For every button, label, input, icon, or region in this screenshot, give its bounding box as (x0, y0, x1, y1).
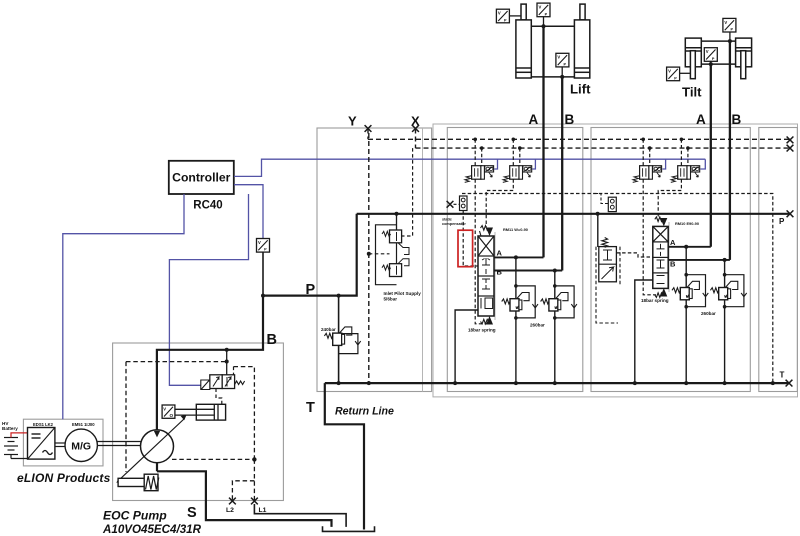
tank symbol (323, 526, 375, 531)
node T Y-line return (367, 381, 371, 385)
wire S suction line to tank (157, 463, 332, 527)
pilot dashed outputs to main spool (475, 179, 488, 324)
pilot dashed compensator channel (463, 211, 478, 267)
controller box RC40 (169, 161, 234, 194)
wire tilt relief B return to T (724, 307, 726, 383)
svg-text:260bar: 260bar (701, 311, 716, 316)
node X bus tap tilt 2 (686, 146, 690, 150)
svg-text:EOC Pump: EOC Pump (103, 509, 167, 523)
svg-text:V: V (163, 406, 166, 411)
plug X at P rail right end (787, 210, 794, 217)
swivel angle sensor (162, 405, 175, 418)
pilot dashed Y bus to pilot valve 2 (513, 139, 520, 165)
svg-text:T: T (780, 371, 785, 380)
pump control valve solenoid (201, 380, 210, 390)
svg-text:Inlet Pilot Supply: Inlet Pilot Supply (384, 291, 422, 296)
wire tilt valve tank port to T (635, 280, 653, 383)
eLION enclosure box (23, 419, 103, 466)
node Y line pilot tap (367, 252, 371, 256)
svg-text:T: T (306, 400, 315, 416)
pilot Y line down to T (368, 133, 370, 383)
svg-text:B: B (565, 112, 575, 127)
tilt pilot reducing valve 1 (633, 166, 662, 183)
node tilt B relief tap (723, 258, 727, 262)
svg-text:L2: L2 (226, 507, 234, 514)
pilot drain gallery dashed (462, 194, 773, 384)
pilot dashed Y tap to reducer (369, 253, 390, 255)
wire lift valve tank port to T (455, 310, 478, 383)
svg-text:EDS1 LK2: EDS1 LK2 (33, 422, 54, 427)
svg-text:RC40: RC40 (193, 200, 222, 212)
tilt section enclosure box (591, 128, 750, 392)
svg-text:RM11 W=0-90: RM11 W=0-90 (503, 227, 528, 232)
node T lift relief A return (514, 381, 518, 385)
wire sensor to cylinder 1 (509, 15, 521, 17)
node Y bus tap lift 1 (473, 138, 477, 142)
pilot dashed control valve to drain (234, 367, 255, 460)
pilot X line down to reducer (402, 148, 413, 236)
svg-text:EM51 1IJ00: EM51 1IJ00 (72, 422, 95, 427)
lift section enclosure box (447, 128, 583, 392)
svg-text:M/G: M/G (71, 441, 91, 453)
P pressure sensor on pump line (257, 239, 270, 253)
wire B tap to control valve (226, 350, 228, 375)
svg-text:18bar spring: 18bar spring (641, 298, 669, 303)
wire B line pump to P junction (157, 296, 263, 430)
wire sensor to P line (262, 252, 264, 296)
node dashed boundary tap (225, 360, 229, 364)
plug X at Y bus end (787, 137, 794, 144)
lift cylinder 1 (516, 4, 531, 78)
wire lift B line down (561, 77, 563, 271)
svg-text:18bar spring: 18bar spring (468, 328, 496, 333)
wire tilt B line down (729, 41, 731, 260)
tilt port relief valve B 260bar (710, 273, 746, 309)
svg-text:260bar: 260bar (530, 323, 545, 328)
pilot Y bus dashed (368, 129, 790, 140)
svg-text:A: A (670, 238, 676, 247)
node tilt A junction (709, 62, 713, 66)
svg-text:Controller: Controller (172, 171, 230, 185)
svg-text:Lift: Lift (570, 82, 591, 97)
tilt main spool valve RM10 (653, 217, 668, 297)
svg-text:B: B (497, 268, 503, 277)
wire controller to eLION M/G (63, 194, 184, 419)
wire controller to solenoid bus (top) (234, 159, 705, 176)
bias piston with spring (118, 478, 144, 486)
end-plate section enclosure box (759, 128, 798, 392)
wire tilt A tap down to relief (685, 247, 687, 275)
motor generator M/G EM51 (65, 429, 97, 461)
wire sensor to rod (680, 72, 691, 74)
node P rail tilt lock valve tap (596, 212, 600, 216)
red highlight box static compensator (458, 230, 473, 267)
sensor lift A line (537, 3, 550, 17)
pump circle A10VO45 (141, 430, 174, 463)
wire lift relief A return to T (515, 318, 517, 383)
plug X at T rail right end (786, 380, 793, 387)
wire controller to P pressure sensor (234, 185, 263, 239)
node T 240bar relief return (337, 381, 341, 385)
wire P rail down to inlet pilot supply (396, 214, 398, 230)
red battery wire (11, 433, 28, 438)
svg-text:RM10 E90-90: RM10 E90-90 (675, 221, 699, 226)
svg-text:O: O (170, 413, 174, 418)
wire lift valve B to cylinder line (494, 270, 562, 272)
svg-text:A: A (529, 112, 539, 127)
pilot dashed Y bus to pilot valve 1 (475, 139, 482, 165)
svg-text:L1: L1 (259, 507, 267, 514)
node X bus tap lift 2 (518, 146, 522, 150)
wire sensor to tilt A junction (710, 61, 712, 64)
wire P line horizontal to inlet section (263, 214, 357, 296)
pump dashed boundary (126, 362, 254, 472)
node B tap to pump control valve (225, 348, 229, 352)
node Y bus tap tilt 1 (641, 138, 645, 142)
pilot dashed branch to L2 (232, 481, 254, 501)
wire T rail to tank (325, 383, 364, 529)
wire tilt B tap down to relief (724, 260, 726, 275)
pilot dashed box around lock valve (596, 247, 620, 323)
lift port relief valve B 260bar (541, 284, 577, 320)
sensor lift rod side (496, 9, 509, 23)
inlet pilot supply reducer 2 (382, 259, 409, 277)
wire P tap to lock valve (597, 214, 599, 247)
wire P rail (357, 213, 790, 215)
plug X at Y port (365, 125, 372, 132)
wire tilt relief A return to T (685, 307, 687, 383)
node X bus tap tilt 1 (648, 146, 652, 150)
pump control 3-way valve (210, 375, 222, 389)
inlet pilot supply reducer 1 (382, 230, 409, 255)
wire drop to lift pilot solenoid 2 (532, 159, 535, 169)
240bar relief valve (324, 296, 360, 384)
wire reducer1 to reducer2 (396, 243, 398, 264)
tilt port relief valve A 260bar (672, 273, 708, 309)
svg-text:B: B (732, 112, 742, 127)
pump variable displacement arrow (118, 419, 185, 482)
svg-text:static: static (442, 218, 452, 222)
svg-text:240bar: 240bar (321, 327, 336, 332)
wire lift B header (531, 76, 574, 78)
svg-text:Tilt: Tilt (682, 85, 702, 100)
wire drop to tilt pilot solenoid 1 (662, 159, 665, 169)
plug X at X bus end (787, 145, 794, 152)
pilot dashed outputs to tilt spool (643, 179, 656, 295)
node T pilot drain return (771, 381, 775, 385)
svg-text:B: B (670, 260, 676, 269)
pump enclosure box (113, 343, 284, 501)
node T tilt valve return (633, 381, 637, 385)
plug X at L1 (251, 498, 258, 505)
wire tilt valve B to cylinder line (668, 259, 730, 261)
wire tilt A line down (710, 64, 712, 247)
svg-text:compensator: compensator (442, 222, 466, 226)
sensor tilt B top (723, 18, 736, 32)
lift pilot reducing valve 2 (503, 166, 532, 183)
pilot dashed lock valve to spool (616, 253, 652, 257)
svg-text:A: A (696, 112, 706, 127)
outer valve-assembly enclosure box (433, 124, 798, 397)
shaft motor to pump (97, 441, 140, 443)
node P rail to inlet pilot supply (395, 212, 399, 216)
tilt load shuttle valve (608, 197, 616, 211)
wire lift valve A to cylinder line (494, 256, 544, 258)
wire tilt valve A to cylinder line (668, 246, 711, 248)
svg-text:P: P (779, 217, 785, 226)
pilot dash to tilt shuttle (595, 194, 608, 204)
node T tilt relief B return (723, 381, 727, 385)
svg-text:Battery: Battery (2, 426, 18, 431)
svg-text:Y: Y (348, 114, 357, 129)
node tilt B junction (728, 39, 732, 43)
svg-text:A: A (497, 249, 503, 258)
plug X at X port (412, 125, 419, 132)
HV battery (4, 438, 28, 459)
tilt cylinder 1 (685, 38, 701, 79)
tilt pilot reducing valve 2 (671, 166, 700, 183)
wire T rail (325, 382, 789, 384)
node lift A junction (542, 24, 546, 28)
node lift A relief tap (514, 255, 518, 259)
wire tilt B header (701, 40, 735, 42)
piston rod to swivel sensor (175, 408, 214, 410)
sensor lift B line (556, 53, 569, 67)
pump control valve spring (235, 381, 245, 385)
sensor tilt rod side (667, 67, 680, 81)
wire lift relief B return to T (554, 318, 556, 383)
wire sensor to A junction (543, 17, 545, 27)
wire sensor to tilt B junction (729, 32, 731, 41)
svg-text:5/6bar: 5/6bar (384, 297, 398, 302)
wire L1 case drain to tank (254, 504, 346, 527)
node T lift relief B return (553, 381, 557, 385)
node case drain junction (252, 457, 256, 461)
lift port relief valve A 260bar (502, 284, 538, 320)
inverter EDS1 LK2 (28, 428, 55, 460)
tilt lock valve (599, 238, 617, 282)
stroking cylinder (196, 404, 225, 420)
wire lift A header (531, 25, 574, 27)
pilot dashed valve to stroking cylinder (216, 389, 222, 405)
internal gray guide line lift section (494, 232, 496, 320)
wire lift A tap down to relief (515, 257, 517, 286)
wire drop to lift pilot solenoid 1 (494, 159, 497, 169)
wire tilt A header (701, 63, 735, 65)
lift pilot reducing valve 1 (465, 166, 494, 183)
svg-text:eLION Products: eLION Products (17, 471, 111, 485)
supply bracket line (376, 225, 397, 285)
svg-text:B: B (267, 332, 277, 348)
plug X lift compensator (447, 201, 454, 208)
node T lift valve return (453, 381, 457, 385)
node lift B junction (560, 75, 564, 79)
wire drop to tilt pilot solenoid 2 (700, 159, 705, 169)
node Y bus tap tilt 2 (680, 138, 684, 142)
svg-text:A10VO45EC4/31R: A10VO45EC4/31R (102, 523, 202, 536)
wire lift B tap down to relief (554, 271, 556, 286)
lift main spool valve RM11 (478, 226, 494, 325)
inlet section enclosure box (317, 128, 432, 392)
pilot X bus dashed (416, 129, 791, 149)
node P tap to 240bar relief (337, 294, 341, 298)
pilot dash to shuttle (454, 203, 460, 205)
internal gray guide line tilt section (668, 222, 670, 292)
node T tilt relief A return (684, 381, 688, 385)
inlet section inner divider line (422, 128, 424, 392)
node X bus tap lift 1 (480, 146, 484, 150)
plug X at L2 (229, 498, 236, 505)
lift cylinder 2 (574, 4, 589, 78)
svg-text:Return Line: Return Line (335, 406, 394, 418)
wire controller to pump control solenoid (169, 194, 248, 385)
node P junction at sensor tap (261, 294, 265, 298)
wire lift A line down (542, 26, 544, 257)
pilot dashed buses to tilt pilot valves (643, 139, 688, 165)
node tilt A relief tap (684, 245, 688, 249)
pilot dashed drain junction to L1 (253, 459, 255, 501)
sensor tilt A (704, 48, 717, 62)
svg-text:S: S (187, 505, 197, 521)
wire sensor to B junction (561, 67, 563, 77)
node lift B relief tap (553, 269, 557, 273)
wire inverter to motor (55, 442, 65, 444)
lift load shuttle valve (460, 196, 468, 211)
pump outlet arrow (154, 431, 160, 438)
tilt cylinder 2 (736, 38, 752, 79)
node Y bus tap lift 2 (512, 138, 516, 142)
